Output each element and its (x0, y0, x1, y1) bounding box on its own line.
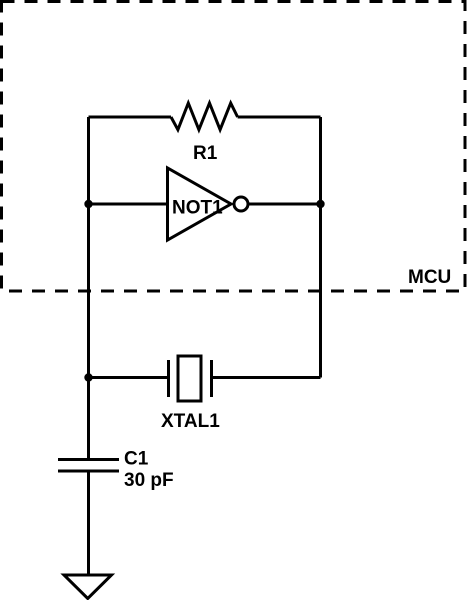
wire left vertical to C1 (87, 378, 90, 460)
svg-text:30 pF: 30 pF (124, 470, 174, 491)
wire NOT1 input (89, 203, 168, 206)
resistor R1 (171, 103, 238, 130)
label C1 (124, 449, 149, 470)
capacitor C1 bottom plate (58, 470, 119, 473)
svg-text:NOT1: NOT1 (172, 198, 223, 219)
label XTAL1 (161, 411, 220, 432)
capacitor C1 top plate (58, 458, 119, 461)
svg-text:XTAL1: XTAL1 (161, 411, 220, 432)
wire NOT1 output (248, 203, 321, 206)
label MCU (408, 267, 451, 288)
op-amp U1 (inverter NOT1 triangle) (168, 168, 232, 240)
wire top-left horizontal (89, 116, 172, 119)
label NOT1 (172, 198, 223, 219)
svg-text:MCU: MCU (408, 267, 451, 288)
svg-text:C1: C1 (124, 449, 149, 470)
crystal XTAL1 left plate (167, 360, 170, 397)
node C (junction left / crystal) (84, 373, 92, 381)
wire C1 to ground (87, 471, 90, 575)
wire crystal left (89, 376, 169, 379)
MCU boundary (dashed box) (2, 2, 466, 292)
wire right vertical (319, 117, 322, 378)
wire top-right horizontal (238, 116, 321, 119)
wire left vertical middle (87, 204, 90, 378)
ground (64, 575, 112, 599)
label 30 pF (124, 470, 174, 491)
crystal XTAL1 right plate (210, 360, 213, 397)
label R1 (193, 143, 218, 164)
svg-text:R1: R1 (193, 143, 218, 164)
node B (junction right / NOT1 output) (316, 200, 324, 208)
node A (junction left / NOT1 input) (84, 200, 92, 208)
wire crystal right (212, 376, 321, 379)
crystal XTAL1 body (178, 356, 201, 401)
wire left vertical upper (87, 117, 90, 204)
NOT1 output bubble (234, 197, 248, 211)
